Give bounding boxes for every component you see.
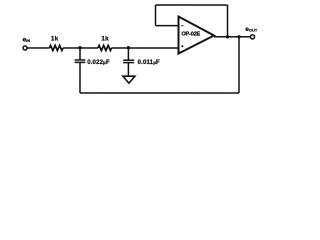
svg-text:OP-02E: OP-02E (181, 31, 200, 37)
wire R2 to node B (112, 47, 129, 49)
node A junction (78, 46, 81, 49)
top feedback horizontal wire (156, 4, 228, 6)
capacitor C1 lead top (79, 48, 81, 59)
svg-text:eOUT: eOUT (245, 26, 258, 33)
wire node B to op-amp (128, 47, 178, 49)
output wire (214, 36, 250, 38)
svg-text:1k: 1k (101, 35, 109, 42)
top feedback vertical wire (227, 5, 229, 37)
wire input to R1 (27, 47, 50, 49)
node at top feedback junction (226, 35, 229, 38)
bottom feedback wire (80, 92, 239, 94)
svg-text:0.011µF: 0.011µF (138, 60, 160, 66)
wire to inverting input (156, 25, 179, 27)
node B junction (127, 46, 130, 49)
right feedback vertical wire (238, 37, 240, 93)
op-amp plus sign (181, 45, 183, 47)
svg-text:1k: 1k (51, 35, 59, 42)
capacitor C2 plates 0.011uF (123, 59, 134, 61)
op-amp U1 OP-02E (178, 17, 214, 54)
resistor R1 (50, 45, 64, 50)
capacitor C2 lead top (127, 48, 129, 60)
ground (123, 76, 135, 83)
op-amp minus sign (181, 25, 183, 27)
capacitor C1 plates 0.022uF (75, 59, 86, 61)
wire R1 to node A (63, 47, 80, 49)
svg-text:0.022µF: 0.022µF (87, 60, 110, 66)
svg-text:eIN: eIN (23, 37, 31, 44)
capacitor C1 lead bottom (79, 63, 81, 93)
wire node A to R2 (80, 47, 98, 49)
capacitor C2 lead to ground (127, 63, 129, 76)
output terminal eout (250, 35, 254, 39)
input terminal ein (23, 46, 27, 50)
resistor R2 (98, 45, 112, 50)
node at bottom feedback junction (237, 35, 240, 38)
left feedback vertical wire (155, 5, 157, 26)
